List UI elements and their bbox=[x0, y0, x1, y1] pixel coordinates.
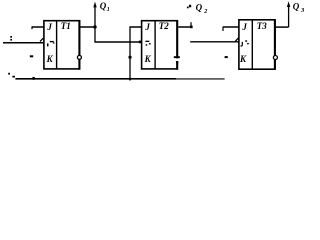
svg-text:J: J bbox=[144, 22, 150, 32]
svg-text:Q: Q bbox=[196, 3, 203, 13]
svg-text:3: 3 bbox=[300, 7, 305, 14]
svg-text:K: K bbox=[239, 54, 247, 64]
arrow Q3 bbox=[287, 1, 290, 7]
flip-flop U1 divider bbox=[56, 21, 58, 69]
wire Q1 vertical riser bbox=[94, 6, 96, 42]
clock entry wedge U1 bbox=[40, 38, 43, 41]
flip-flop U1 right edge thick bbox=[78, 20, 80, 70]
node logic-1 mark left of FF1 K bbox=[30, 55, 33, 57]
flip-flop U1 box T1 bbox=[44, 21, 80, 69]
svg-text:Q: Q bbox=[293, 2, 300, 12]
wire FF1 Q output bbox=[80, 26, 95, 28]
wire bottom bus bbox=[15, 78, 176, 80]
wire FF1 Q to FF2 clock bbox=[94, 41, 141, 43]
clock entry wedge U3 bbox=[235, 38, 238, 42]
junction dot FF2 Q tap bbox=[190, 26, 193, 29]
flip-flop U3 box T3 bbox=[239, 20, 275, 69]
wire FF2 Q output bbox=[178, 26, 191, 28]
wire FF2 JK vertical from bus bbox=[129, 27, 131, 80]
wire Q2 riser stub bbox=[190, 22, 192, 26]
flip-flop U2 box T2 bbox=[142, 21, 178, 69]
wire FF3 J stub downward tick bbox=[222, 27, 224, 31]
pin C1 clock mark U1 bbox=[47, 43, 49, 46]
wire FF2 Q to FF3 clock bbox=[190, 41, 239, 43]
svg-text:Q: Q bbox=[100, 1, 107, 11]
wire CP input to FF1 clock bbox=[3, 42, 44, 44]
wire FF2 vertical bus tick bbox=[129, 79, 131, 81]
pin C1 clock mark U3 bbox=[241, 42, 243, 46]
junction dot on bus left bbox=[32, 77, 35, 80]
arrow Q1 bbox=[93, 2, 96, 8]
wire FF2 J input stub bbox=[129, 26, 141, 28]
flip-flop U2 divider bbox=[154, 21, 156, 69]
node CP label (degraded colon mark) bbox=[10, 36, 12, 38]
svg-text:K: K bbox=[46, 54, 54, 64]
bubble Q-bar U3 bbox=[273, 56, 277, 60]
svg-text:T2: T2 bbox=[159, 21, 169, 31]
junction dot FF2 K row bbox=[128, 56, 131, 59]
flip-flop U3 divider bbox=[251, 20, 253, 69]
svg-text:T3: T3 bbox=[257, 21, 267, 31]
node bus start specks bbox=[8, 73, 10, 75]
svg-text:2: 2 bbox=[203, 9, 207, 15]
wire FF1 J stub downward tick bbox=[31, 26, 33, 29]
svg-text:T1: T1 bbox=[61, 21, 71, 31]
arrow Q2 (broken in scan) bbox=[187, 7, 189, 9]
svg-text:J: J bbox=[241, 22, 247, 32]
bubble Q-bar U1 bbox=[77, 55, 81, 59]
wire FF1 J input stub bbox=[32, 26, 44, 28]
wire FF3 Q output bbox=[276, 26, 289, 28]
bubble Q-bar U2 (degraded: dash and dot) bbox=[174, 56, 180, 58]
svg-text:J: J bbox=[46, 22, 52, 32]
flip-flop U2 right edge thick bbox=[176, 20, 178, 70]
wire FF3 J input stub bbox=[223, 26, 239, 28]
clock entry dot U2 bbox=[139, 41, 142, 44]
flip-flop U3 right edge thick bbox=[274, 19, 276, 70]
wire Q3 vertical riser bbox=[288, 5, 290, 27]
junction dot at Q1 tap bbox=[93, 25, 96, 28]
svg-text:K: K bbox=[144, 54, 152, 64]
svg-text:1: 1 bbox=[107, 7, 110, 13]
node logic-1 mark left of FF3 K bbox=[225, 56, 228, 58]
pin C1 clock mark U2 bbox=[145, 41, 149, 42]
